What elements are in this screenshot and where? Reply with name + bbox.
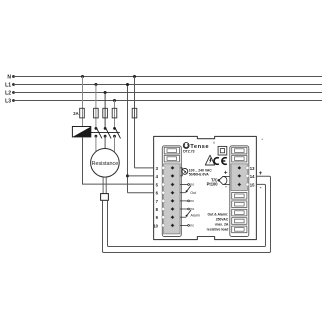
svg-text:13: 13 xyxy=(250,166,255,171)
sensor wire - (inner loop) xyxy=(108,184,266,246)
tense logo xyxy=(183,141,215,150)
left terminal cell 1 xyxy=(164,147,179,154)
svg-text:Alarm: Alarm xyxy=(191,214,200,218)
svg-text:250VAC: 250VAC xyxy=(216,217,229,221)
wire N drop to fuse F5 and t3 xyxy=(134,77,136,168)
svg-text:L2: L2 xyxy=(5,91,11,97)
clamp scallops right xyxy=(246,166,249,186)
wire L1 drop pole1 xyxy=(95,85,97,129)
switch pole 2 xyxy=(104,127,111,138)
sensor head xyxy=(101,194,109,201)
wire pole1 to resistance xyxy=(95,136,97,153)
relay Alarm contact: pin t9 common arm xyxy=(180,210,200,218)
svg-text:2A: 2A xyxy=(73,111,78,116)
svg-text:+: + xyxy=(224,170,228,177)
svg-text:L1: L1 xyxy=(5,83,11,89)
right screw terminals 13-15 xyxy=(238,167,241,186)
right terminal cell 20 xyxy=(232,226,247,233)
node N-F1 junction xyxy=(81,75,84,78)
T/C Pt100 sensor symbol xyxy=(218,170,230,190)
class II insulation symbol xyxy=(218,146,227,155)
fuse F5 xyxy=(132,108,137,118)
relay Out contact: pin t7 nc xyxy=(180,199,194,203)
left terminal gray block (3-10) xyxy=(164,164,180,234)
bus line L3 xyxy=(5,99,322,105)
relay Out contact: pin t6 common arm xyxy=(180,186,196,195)
sensor wire + (outer loop) xyxy=(103,176,271,252)
relay Alarm contact: pin t10 nc xyxy=(180,223,194,227)
screw cross marks right xyxy=(238,166,242,186)
svg-text:Out: Out xyxy=(190,191,196,195)
screw cross marks left xyxy=(171,166,175,227)
svg-text:resistive load: resistive load xyxy=(207,227,229,231)
label Out & Alarm block xyxy=(207,212,229,231)
resistance heater R xyxy=(91,149,120,178)
supply pins t3 t4 xyxy=(180,168,182,176)
right terminal cell 12 xyxy=(232,155,247,162)
controller U1 outline xyxy=(154,136,257,239)
fuse F1 2A xyxy=(73,108,84,118)
switch pole 1 xyxy=(95,127,102,138)
left terminal cell 2 xyxy=(164,155,179,162)
right terminal cell 18 xyxy=(232,209,247,216)
svg-text:N: N xyxy=(7,74,11,80)
contactor coil K1 (semiconductor relay box) xyxy=(72,127,90,137)
print speck artifact xyxy=(262,139,263,140)
svg-text:Resistance: Resistance xyxy=(92,161,119,167)
svg-text:+: + xyxy=(259,171,263,177)
right terminal cell 11 xyxy=(232,147,247,154)
node N drop junction xyxy=(133,75,136,78)
wire L1 to terminal 4 xyxy=(128,175,154,177)
bus line L1 xyxy=(5,83,322,89)
right terminal cell 17 xyxy=(232,201,247,208)
right terminal gray block (13-15) xyxy=(231,164,247,191)
left terminal strip body xyxy=(162,146,181,237)
wire L3 drop pole3 xyxy=(114,101,116,129)
relay Alarm contact: pin t8 no xyxy=(180,207,194,211)
supply symbol xyxy=(182,169,188,175)
svg-text:Out & Alarm:: Out & Alarm: xyxy=(208,212,229,216)
clamp scallops left xyxy=(162,166,165,227)
wire N drop to fuse F1 xyxy=(82,77,84,127)
fuse F2 xyxy=(94,108,99,118)
node L3-pole3 junction xyxy=(113,99,116,102)
svg-text:14: 14 xyxy=(250,174,255,179)
right terminal cell 19 xyxy=(232,218,247,225)
svg-text:Pt100: Pt100 xyxy=(207,182,219,187)
CE mark xyxy=(214,158,227,165)
sensor probe in heater xyxy=(103,177,106,194)
wire L2 drop pole2 xyxy=(104,93,106,129)
node L1-pole1 junction xyxy=(94,83,97,86)
node L2-pole2 junction xyxy=(104,91,107,94)
svg-text:DTZ.73: DTZ.73 xyxy=(183,149,194,153)
wire contactor coil to terminal 5 xyxy=(83,137,154,184)
svg-text:50/60Hz 6VA: 50/60Hz 6VA xyxy=(189,173,209,177)
svg-text:10: 10 xyxy=(153,223,158,228)
svg-text:L3: L3 xyxy=(5,99,11,105)
switch linkage bar xyxy=(90,131,120,133)
wire N fused to terminal 3 xyxy=(135,167,154,169)
wire pole2 to resistance xyxy=(104,136,106,148)
bus line L2 xyxy=(5,91,322,97)
wire L1 drop to controller t4/t6 xyxy=(127,85,129,193)
svg-text:®: ® xyxy=(213,141,215,145)
svg-text:-: - xyxy=(260,185,262,191)
wire L1 to terminal 6 xyxy=(128,192,154,194)
right terminal cell 16 xyxy=(232,193,247,200)
svg-text:nc: nc xyxy=(190,223,194,227)
fuse F4 xyxy=(112,108,117,118)
svg-text:nc: nc xyxy=(190,199,194,203)
svg-text:15: 15 xyxy=(250,183,255,188)
node terminal4 junction xyxy=(126,174,129,177)
right terminal strip body xyxy=(230,146,249,237)
relay Out contact: pin t5 no xyxy=(180,182,194,186)
node L1 drop junction xyxy=(126,83,129,86)
wire pole3 to resistance xyxy=(114,136,116,152)
svg-text:max. 2A: max. 2A xyxy=(215,222,229,226)
left screw terminals 3-10 xyxy=(171,167,174,227)
fuse F3 xyxy=(103,108,108,118)
warning triangle xyxy=(205,155,214,165)
switch pole 3 xyxy=(113,127,120,138)
bus line N xyxy=(7,74,322,80)
